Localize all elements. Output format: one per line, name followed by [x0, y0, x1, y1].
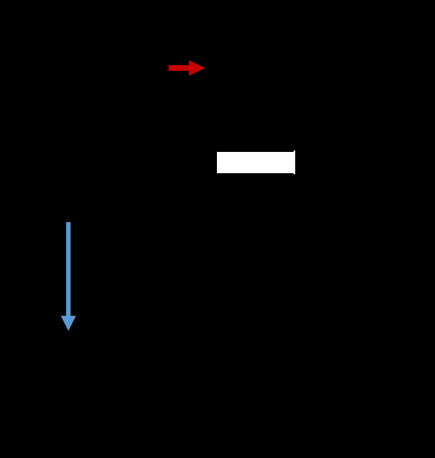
blue down arrow — [61, 222, 76, 331]
red right arrow — [169, 60, 206, 75]
text cursor — [294, 150, 296, 174]
white text box — [217, 152, 294, 173]
